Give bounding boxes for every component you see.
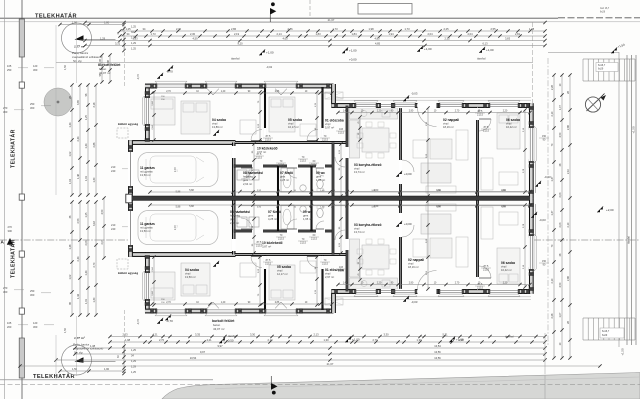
svg-text:1,25: 1,25	[131, 371, 136, 374]
svg-text:10 közlekedő: 10 közlekedő	[262, 241, 283, 245]
svg-text:09 wc: 09 wc	[316, 171, 325, 175]
svg-text:5,88: 5,88	[176, 206, 181, 209]
svg-text:3,83: 3,83	[505, 36, 511, 40]
svg-text:4,50: 4,50	[559, 132, 562, 137]
svg-text:4,21: 4,21	[206, 338, 212, 342]
svg-text:+1,50: +1,50	[632, 126, 636, 134]
svg-text:2,86: 2,86	[275, 302, 280, 304]
svg-text:02 nappali: 02 nappali	[443, 118, 459, 122]
svg-text:+1,00: +1,00	[456, 337, 464, 341]
svg-text:1,73: 1,73	[150, 32, 156, 36]
svg-text:212,5: 212,5	[300, 159, 307, 162]
svg-text:2,20: 2,20	[503, 283, 508, 285]
svg-text:210: 210	[111, 223, 116, 227]
svg-text:9,20: 9,20	[237, 41, 243, 45]
svg-text:212,5: 212,5	[278, 163, 285, 166]
svg-text:13,89 m²: 13,89 m²	[212, 125, 223, 129]
svg-text:10,56: 10,56	[434, 356, 441, 360]
svg-text:gres: gres	[316, 175, 322, 179]
svg-text:212,5: 212,5	[477, 286, 484, 289]
svg-text:1,29: 1,29	[131, 37, 136, 40]
svg-text:1,30: 1,30	[323, 338, 329, 342]
svg-text:212,5: 212,5	[256, 244, 263, 247]
svg-text:13,74 m²: 13,74 m²	[354, 170, 365, 174]
svg-text:3,80: 3,80	[436, 190, 441, 192]
svg-text:+1,00: +1,00	[352, 337, 360, 341]
svg-text:1,38: 1,38	[90, 344, 96, 348]
svg-text:2,86: 2,86	[93, 142, 96, 147]
svg-text:1,44: 1,44	[77, 293, 80, 298]
svg-text:5,88: 5,88	[189, 190, 194, 192]
svg-text:9,97: 9,97	[200, 350, 206, 354]
svg-text:1,30: 1,30	[93, 297, 96, 302]
svg-text:2,72: 2,72	[174, 225, 177, 230]
svg-text:1,65 m²: 1,65 m²	[316, 178, 325, 182]
svg-text:240: 240	[111, 227, 116, 231]
svg-text:10 közlekedő: 10 közlekedő	[257, 147, 278, 151]
svg-text:2,86: 2,86	[567, 275, 570, 280]
svg-text:1,94: 1,94	[388, 32, 394, 36]
svg-text:212,5: 212,5	[311, 163, 318, 166]
svg-text:2,25: 2,25	[443, 27, 449, 31]
svg-text:16,17 m²: 16,17 m²	[288, 125, 299, 129]
svg-text:05 szoba: 05 szoba	[277, 265, 291, 269]
svg-text:2,86: 2,86	[567, 124, 570, 129]
svg-text:212,5: 212,5	[483, 268, 490, 271]
svg-text:250: 250	[30, 102, 35, 106]
svg-text:12,17 m²: 12,17 m²	[277, 272, 288, 276]
svg-text:212,5: 212,5	[265, 262, 272, 265]
svg-text:2,53: 2,53	[77, 218, 80, 223]
svg-text:1,90: 1,90	[104, 367, 110, 371]
svg-text:-0,03: -0,03	[411, 92, 418, 96]
svg-text:mü.gyanta: mü.gyanta	[140, 170, 153, 174]
svg-text:kültéri egység: kültéri egység	[118, 271, 138, 275]
svg-text:1,98: 1,98	[368, 27, 374, 31]
svg-text:6,13: 6,13	[482, 41, 488, 45]
svg-text:212,5: 212,5	[311, 237, 318, 240]
svg-text:1,31: 1,31	[85, 175, 88, 180]
svg-text:16,42 m²: 16,42 m²	[506, 125, 517, 129]
svg-text:1,50: 1,50	[72, 367, 78, 371]
svg-text:támfal: támfal	[477, 57, 486, 61]
svg-text:Gsz 16,7: Gsz 16,7	[600, 8, 610, 10]
svg-text:1,98: 1,98	[107, 59, 110, 64]
svg-text:vinyl: vinyl	[288, 122, 294, 126]
svg-text:1,50: 1,50	[63, 327, 67, 333]
svg-text:6x28: 6x28	[600, 12, 606, 14]
svg-text:6x16,7: 6x16,7	[602, 330, 610, 333]
svg-text:+1,50: +1,50	[621, 348, 625, 356]
svg-text:vinyl: vinyl	[506, 122, 512, 126]
svg-text:2,28: 2,28	[551, 313, 554, 318]
svg-text:1,07: 1,07	[559, 104, 562, 109]
svg-text:2,56 m²: 2,56 m²	[230, 221, 239, 225]
svg-text:gres: gres	[303, 214, 309, 218]
svg-text:3,65: 3,65	[77, 99, 80, 104]
svg-text:2,64 m²: 2,64 m²	[243, 182, 252, 186]
svg-text:120: 120	[33, 64, 38, 68]
svg-text:9,97: 9,97	[217, 344, 223, 348]
svg-text:212,5: 212,5	[278, 237, 285, 240]
svg-text:300: 300	[30, 106, 35, 110]
svg-text:04 szoba: 04 szoba	[212, 118, 226, 122]
svg-text:-0,03: -0,03	[539, 218, 546, 222]
svg-text:vinyl: vinyl	[212, 122, 218, 126]
svg-text:2,70: 2,70	[166, 91, 171, 93]
svg-text:1,29: 1,29	[131, 42, 136, 45]
svg-text:04 szoba: 04 szoba	[185, 268, 199, 272]
svg-text:2,10: 2,10	[551, 111, 554, 116]
svg-text:+1,00: +1,00	[424, 47, 432, 51]
svg-text:11 garázs: 11 garázs	[140, 166, 155, 170]
svg-text:1,37: 1,37	[551, 210, 554, 215]
svg-text:1,40: 1,40	[343, 283, 348, 285]
svg-text:300: 300	[3, 110, 8, 114]
svg-text:3,50: 3,50	[374, 190, 379, 192]
svg-text:16,42 m²: 16,42 m²	[501, 268, 512, 272]
svg-text:helyiség: helyiség	[243, 175, 253, 179]
svg-text:vinyl: vinyl	[277, 269, 283, 273]
svg-text:2,04: 2,04	[467, 32, 473, 36]
svg-text:4,25 m²: 4,25 m²	[268, 217, 277, 221]
svg-text:1,77 m²: 1,77 m²	[74, 336, 86, 340]
svg-text:21,67: 21,67	[328, 18, 335, 22]
svg-text:3,50: 3,50	[374, 206, 379, 208]
svg-text:300: 300	[3, 290, 8, 294]
svg-text:212,5: 212,5	[483, 129, 490, 132]
svg-text:13,50 m²: 13,50 m²	[140, 229, 151, 233]
svg-text:2,28: 2,28	[551, 84, 554, 89]
svg-text:gres: gres	[230, 217, 236, 221]
svg-text:4,21: 4,21	[152, 333, 158, 337]
svg-text:1,38: 1,38	[529, 27, 535, 31]
svg-text:300: 300	[33, 325, 38, 329]
svg-text:09 wc: 09 wc	[303, 210, 312, 214]
svg-text:1,40: 1,40	[343, 111, 348, 113]
svg-text:mü.gyanta: mü.gyanta	[140, 226, 153, 230]
svg-text:6x29: 6x29	[598, 68, 604, 71]
svg-text:3,18: 3,18	[93, 102, 96, 107]
svg-text:gres: gres	[243, 178, 249, 182]
svg-text:212,5: 212,5	[300, 241, 307, 244]
svg-text:1,25: 1,25	[131, 48, 136, 51]
svg-text:1,30: 1,30	[416, 338, 422, 342]
svg-text:06 szoba: 06 szoba	[506, 118, 520, 122]
svg-text:2,55: 2,55	[490, 27, 496, 31]
svg-text:2,19: 2,19	[234, 32, 240, 36]
svg-text:-0,03: -0,03	[411, 300, 418, 304]
svg-text:08 háztartási: 08 háztartási	[230, 210, 250, 214]
svg-text:212,5: 212,5	[265, 138, 272, 141]
svg-text:1,04: 1,04	[69, 178, 72, 183]
svg-text:240: 240	[111, 169, 116, 173]
svg-text:2,81: 2,81	[515, 32, 521, 36]
svg-text:2,13: 2,13	[313, 333, 319, 337]
svg-text:TELEKHATÁR: TELEKHATÁR	[33, 373, 75, 380]
svg-text:2,90: 2,90	[409, 111, 414, 113]
svg-text:+1,00: +1,00	[349, 48, 357, 52]
svg-text:1,44: 1,44	[85, 270, 88, 275]
svg-text:5,97 m²: 5,97 m²	[325, 126, 334, 130]
svg-text:1,25: 1,25	[85, 212, 88, 217]
svg-text:vinyl: vinyl	[408, 262, 414, 266]
svg-text:+2,00: +2,00	[606, 208, 614, 212]
svg-text:2,03: 2,03	[101, 239, 104, 244]
svg-text:1,50: 1,50	[63, 64, 67, 70]
svg-text:vinyl: vinyl	[354, 167, 360, 171]
svg-text:300: 300	[33, 68, 38, 72]
svg-text:2,20: 2,20	[377, 283, 382, 285]
svg-text:2,03: 2,03	[559, 192, 562, 197]
svg-text:13,50 m²: 13,50 m²	[185, 275, 196, 279]
svg-text:3,30: 3,30	[250, 333, 256, 337]
svg-text:vinyl: vinyl	[501, 265, 507, 269]
svg-text:2,70: 2,70	[159, 338, 165, 342]
svg-text:1,40: 1,40	[221, 91, 226, 93]
svg-text:2,10: 2,10	[567, 168, 570, 173]
svg-text:2,04: 2,04	[427, 32, 433, 36]
svg-text:270: 270	[3, 106, 8, 110]
svg-text:2,80: 2,80	[501, 206, 506, 208]
svg-text:43,07 m²: 43,07 m²	[213, 327, 224, 331]
svg-text:3,87 m²: 3,87 m²	[262, 245, 271, 249]
svg-text:1,25: 1,25	[85, 114, 88, 119]
svg-text:1,30: 1,30	[93, 177, 96, 182]
svg-text:+1,00: +1,00	[266, 50, 274, 54]
svg-text:05 szoba: 05 szoba	[288, 118, 302, 122]
svg-text:4,25 m²: 4,25 m²	[280, 178, 289, 182]
svg-text:támfal: támfal	[231, 57, 240, 61]
svg-text:2,70: 2,70	[372, 338, 378, 342]
svg-text:-0,70: -0,70	[136, 74, 140, 80]
svg-text:212,5: 212,5	[338, 131, 345, 134]
svg-text:250: 250	[30, 289, 35, 293]
svg-text:1,65 m²: 1,65 m²	[303, 217, 312, 221]
svg-text:2,03: 2,03	[559, 222, 562, 227]
svg-text:2,80: 2,80	[501, 190, 506, 192]
svg-text:270: 270	[8, 225, 13, 229]
svg-text:6x29: 6x29	[602, 334, 608, 337]
svg-text:1,25: 1,25	[131, 26, 136, 29]
svg-text:10,54: 10,54	[434, 344, 441, 348]
svg-text:3,80: 3,80	[436, 206, 441, 208]
svg-text:18,16 m²: 18,16 m²	[408, 265, 419, 269]
svg-text:1,50: 1,50	[72, 20, 78, 24]
svg-text:3,35: 3,35	[195, 333, 201, 337]
svg-text:kültéri egység: kültéri egység	[118, 122, 138, 126]
svg-text:06 szoba: 06 szoba	[501, 261, 515, 265]
svg-text:1,40: 1,40	[221, 302, 226, 304]
svg-text:1,37: 1,37	[551, 176, 554, 181]
svg-text:1,02: 1,02	[69, 274, 72, 279]
svg-text:1,25: 1,25	[131, 349, 136, 352]
svg-text:vinyl: vinyl	[325, 122, 331, 126]
svg-text:212,5: 212,5	[256, 156, 263, 159]
svg-text:01 elöszoba: 01 elöszoba	[325, 119, 344, 123]
svg-text:vinyl: vinyl	[443, 122, 449, 126]
svg-text:1,02: 1,02	[69, 151, 72, 156]
svg-text:2,20: 2,20	[377, 111, 382, 113]
svg-text:21,67: 21,67	[327, 362, 334, 366]
svg-text:200: 200	[7, 325, 12, 329]
svg-text:07 fürdö: 07 fürdö	[268, 210, 281, 214]
svg-text:vinyl: vinyl	[185, 272, 191, 276]
svg-text:02 nappali: 02 nappali	[408, 258, 424, 262]
svg-text:+0,00: +0,00	[404, 172, 412, 176]
svg-text:+0,00: +0,00	[404, 222, 412, 226]
svg-text:vinyl: vinyl	[325, 272, 331, 276]
svg-text:2,30: 2,30	[190, 32, 196, 36]
svg-text:1,48: 1,48	[77, 173, 80, 178]
svg-text:300: 300	[30, 293, 35, 297]
svg-text:5,31: 5,31	[442, 333, 448, 337]
svg-text:2,10: 2,10	[567, 222, 570, 227]
svg-text:1,29: 1,29	[100, 36, 106, 40]
svg-text:1,83: 1,83	[315, 32, 321, 36]
svg-text:300: 300	[8, 229, 13, 233]
svg-text:2,97 m²: 2,97 m²	[325, 275, 334, 279]
svg-text:-0,02: -0,02	[266, 65, 273, 69]
svg-text:3,18: 3,18	[93, 220, 96, 225]
svg-text:2,35: 2,35	[444, 36, 450, 40]
svg-text:2,70: 2,70	[455, 283, 460, 285]
svg-text:támfal: támfal	[627, 236, 631, 244]
svg-text:105: 105	[7, 321, 12, 325]
svg-text:2,70: 2,70	[166, 302, 171, 304]
svg-text:1,29: 1,29	[131, 366, 136, 369]
svg-text:4,50: 4,50	[559, 282, 562, 287]
svg-text:-0,03: -0,03	[544, 175, 551, 179]
svg-text:1,44: 1,44	[85, 143, 88, 148]
svg-text:1,06: 1,06	[99, 58, 102, 63]
svg-text:2,20: 2,20	[503, 111, 508, 113]
svg-text:2,90: 2,90	[409, 283, 414, 285]
svg-text:18,16 m²: 18,16 m²	[443, 125, 454, 129]
svg-text:03 konyha-étkezö: 03 konyha-étkezö	[354, 163, 381, 167]
svg-text:2,44: 2,44	[77, 256, 80, 261]
svg-text:2,10: 2,10	[551, 278, 554, 283]
svg-text:270: 270	[3, 286, 8, 290]
svg-text:2,14: 2,14	[276, 32, 282, 36]
svg-text:gres: gres	[268, 214, 274, 218]
svg-text:2,03: 2,03	[85, 240, 88, 245]
svg-text:105: 105	[7, 64, 12, 68]
svg-text:4,50: 4,50	[101, 209, 104, 214]
svg-text:vinyl: vinyl	[354, 227, 360, 231]
svg-text:helyiség: helyiség	[230, 214, 240, 218]
svg-text:1,98: 1,98	[125, 338, 131, 342]
svg-text:-0,70: -0,70	[136, 319, 140, 325]
svg-text:11 garázs: 11 garázs	[140, 222, 155, 226]
svg-text:212,5: 212,5	[338, 269, 345, 272]
svg-text:13,74 m²: 13,74 m²	[354, 230, 365, 234]
svg-text:4,59: 4,59	[192, 36, 198, 40]
svg-text:212,5: 212,5	[322, 138, 329, 141]
svg-text:1,84: 1,84	[351, 32, 357, 36]
svg-text:2,70: 2,70	[93, 262, 96, 267]
svg-text:250: 250	[7, 68, 12, 72]
svg-text:gres: gres	[280, 175, 286, 179]
svg-text:212,5: 212,5	[477, 113, 484, 116]
svg-text:4,85: 4,85	[375, 41, 381, 45]
svg-text:5,88: 5,88	[189, 206, 194, 208]
svg-text:120: 120	[33, 321, 38, 325]
svg-text:210: 210	[111, 165, 116, 169]
svg-text:+1,00: +1,00	[486, 48, 494, 52]
svg-text:1,48: 1,48	[69, 244, 72, 249]
svg-text:1,44: 1,44	[69, 122, 72, 127]
svg-text:2,53: 2,53	[122, 333, 128, 337]
svg-text:3,31: 3,31	[115, 41, 121, 45]
svg-text:07 fürdö: 07 fürdö	[280, 171, 293, 175]
svg-text:TELEKHATÁR: TELEKHATÁR	[10, 129, 17, 168]
svg-text:TELEKHATÁR: TELEKHATÁR	[35, 13, 77, 20]
svg-text:1,29: 1,29	[131, 360, 136, 363]
svg-text:1,73: 1,73	[404, 27, 410, 31]
svg-text:03 konyha-étkezö: 03 konyha-étkezö	[354, 223, 381, 227]
svg-text:2,86: 2,86	[231, 27, 237, 31]
svg-text:1,07: 1,07	[559, 312, 562, 317]
svg-text:1,31: 1,31	[85, 298, 88, 303]
svg-text:13,50 m²: 13,50 m²	[140, 173, 151, 177]
svg-text:2,70: 2,70	[455, 111, 460, 113]
svg-text:10,54: 10,54	[190, 356, 197, 360]
svg-text:+0,00: +0,00	[349, 58, 357, 62]
svg-text:2,86: 2,86	[275, 91, 280, 93]
svg-text:2,72: 2,72	[174, 167, 177, 172]
svg-text:TELEKHATÁR: TELEKHATÁR	[10, 239, 17, 278]
svg-text:3,30: 3,30	[383, 333, 389, 337]
svg-text:2,44: 2,44	[77, 136, 80, 141]
svg-text:10,56: 10,56	[434, 350, 441, 354]
svg-text:212,5: 212,5	[322, 262, 329, 265]
